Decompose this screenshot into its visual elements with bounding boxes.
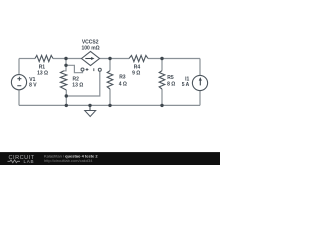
svg-text:5 A: 5 A bbox=[182, 82, 190, 88]
svg-text:8 V: 8 V bbox=[29, 83, 37, 89]
node dot bottom rail ground bbox=[88, 104, 91, 107]
node dot top rail R3 junction bbox=[108, 57, 111, 60]
svg-text:8 Ω: 8 Ω bbox=[167, 82, 175, 88]
node dot bottom rail R3 bbox=[108, 104, 111, 107]
wire top rail R1 to diamond bbox=[53, 58, 82, 60]
node dot R2 control branch bbox=[65, 94, 68, 97]
svg-text:13 Ω: 13 Ω bbox=[72, 82, 83, 88]
node dot control split bbox=[64, 64, 67, 67]
svg-text:13 Ω: 13 Ω bbox=[37, 71, 48, 77]
footer bar bbox=[0, 152, 220, 165]
footer logo zigzag bbox=[8, 160, 21, 163]
svg-text:9 Ω: 9 Ω bbox=[132, 71, 140, 77]
node dot bottom rail R5 bbox=[160, 104, 163, 107]
wire R5 branch bbox=[161, 59, 163, 106]
svg-text:LAB: LAB bbox=[24, 159, 35, 164]
svg-text:100 mΩ: 100 mΩ bbox=[82, 45, 100, 51]
ground bbox=[89, 105, 91, 110]
resistor R2 bbox=[60, 71, 66, 90]
wire left branch bbox=[18, 59, 20, 106]
node dot top rail R5 junction bbox=[160, 57, 163, 60]
wire top rail diamond to R4 bbox=[100, 58, 130, 60]
svg-text:R5: R5 bbox=[167, 75, 174, 81]
wire R2 branch vertical bbox=[64, 59, 66, 106]
voltage source V1 bbox=[11, 75, 26, 90]
dependent source VCCS2 diamond bbox=[82, 52, 100, 66]
wire VCCS minus control lead bbox=[66, 71, 100, 96]
wire VCCS plus control lead bbox=[66, 65, 83, 72]
wire R3 branch bbox=[109, 59, 111, 106]
svg-text:4 Ω: 4 Ω bbox=[119, 81, 127, 87]
resistor R1 bbox=[35, 55, 53, 61]
resistor R4 bbox=[129, 55, 148, 61]
wire top rail left segment bbox=[19, 58, 35, 60]
node dot top rail R2 junction bbox=[64, 57, 67, 60]
VCCS2 plus control terminal bbox=[81, 68, 84, 71]
node dot bottom rail R2 bbox=[65, 104, 68, 107]
current source I1 bbox=[192, 75, 207, 90]
resistor R3 bbox=[107, 71, 113, 89]
resistor R5 bbox=[159, 71, 165, 89]
VCCS2 minus control terminal bbox=[98, 68, 101, 71]
wire top rail right segment bbox=[148, 58, 200, 60]
svg-text:http://circuitlab.com/cakd34: http://circuitlab.com/cakd34 bbox=[44, 158, 93, 163]
svg-text:R4: R4 bbox=[134, 65, 141, 71]
svg-text:R3: R3 bbox=[119, 75, 126, 81]
wire right branch bbox=[199, 59, 201, 106]
wire bottom rail bbox=[19, 104, 200, 106]
